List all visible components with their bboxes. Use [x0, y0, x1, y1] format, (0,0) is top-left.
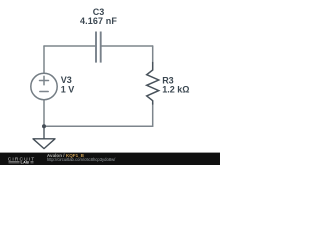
svg-text:1 V: 1 V — [61, 85, 75, 95]
svg-text:http://circuitlab.com/c6c8hcp3: http://circuitlab.com/c6c8hcp3ydo8w/ — [47, 157, 116, 162]
svg-text:V3: V3 — [61, 75, 72, 85]
svg-text:4.167 nF: 4.167 nF — [80, 16, 117, 26]
svg-text:1.2 kΩ: 1.2 kΩ — [162, 85, 189, 95]
svg-text:LAB: LAB — [21, 161, 30, 165]
